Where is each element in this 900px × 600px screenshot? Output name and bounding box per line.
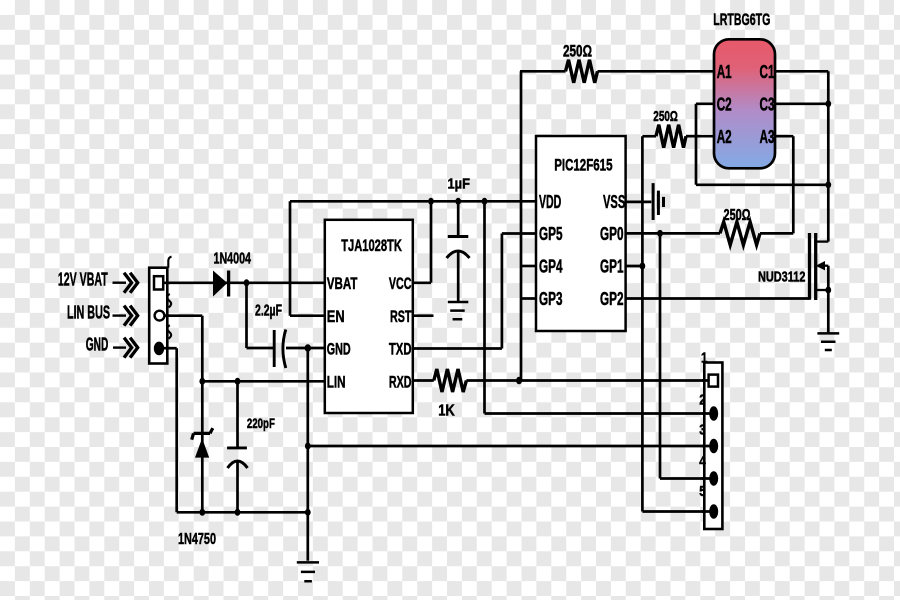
svg-text:GP5: GP5 — [539, 224, 563, 244]
svg-text:1µF: 1µF — [448, 176, 471, 193]
svg-text:4: 4 — [699, 453, 706, 470]
svg-text:LRTBG6TG: LRTBG6TG — [713, 10, 770, 29]
svg-text:3: 3 — [699, 421, 706, 438]
svg-text:250Ω: 250Ω — [563, 42, 592, 61]
svg-text:GND: GND — [86, 334, 109, 354]
svg-text:GND: GND — [327, 340, 351, 359]
svg-text:5: 5 — [699, 483, 706, 500]
svg-text:LIN: LIN — [327, 373, 346, 392]
svg-text:A3: A3 — [760, 127, 775, 147]
svg-text:EN: EN — [327, 307, 345, 326]
svg-text:A1: A1 — [717, 62, 732, 82]
svg-text:GP0: GP0 — [600, 224, 624, 244]
svg-text:1K: 1K — [438, 403, 455, 420]
svg-text:VCC: VCC — [389, 274, 412, 293]
svg-text:NUD3112: NUD3112 — [758, 268, 805, 285]
svg-text:220pF: 220pF — [247, 416, 275, 431]
svg-text:C3: C3 — [760, 94, 775, 114]
svg-text:TJA1028TK: TJA1028TK — [341, 237, 402, 255]
svg-text:C2: C2 — [717, 94, 732, 114]
svg-text:PIC12F615: PIC12F615 — [554, 155, 612, 174]
svg-text:A2: A2 — [717, 127, 732, 147]
svg-text:C1: C1 — [760, 62, 775, 82]
svg-text:GP1: GP1 — [600, 257, 624, 277]
svg-text:VSS: VSS — [603, 192, 625, 212]
svg-text:RXD: RXD — [389, 373, 412, 392]
svg-text:LIN BUS: LIN BUS — [67, 303, 110, 323]
svg-text:GP3: GP3 — [539, 289, 563, 309]
svg-text:1: 1 — [701, 350, 708, 367]
svg-text:RST: RST — [390, 307, 412, 326]
svg-text:2: 2 — [699, 391, 706, 408]
svg-text:12V VBAT: 12V VBAT — [58, 270, 108, 290]
svg-text:250Ω: 250Ω — [653, 108, 678, 125]
svg-text:1N4004: 1N4004 — [214, 250, 252, 267]
svg-text:TXD: TXD — [389, 340, 412, 359]
svg-text:VBAT: VBAT — [327, 274, 358, 293]
svg-text:1N4750: 1N4750 — [178, 531, 216, 548]
svg-text:GP2: GP2 — [600, 289, 624, 309]
svg-text:GP4: GP4 — [539, 257, 563, 277]
svg-text:VDD: VDD — [539, 192, 561, 212]
svg-text:250Ω: 250Ω — [724, 207, 751, 224]
svg-text:2.2µF: 2.2µF — [255, 302, 282, 319]
